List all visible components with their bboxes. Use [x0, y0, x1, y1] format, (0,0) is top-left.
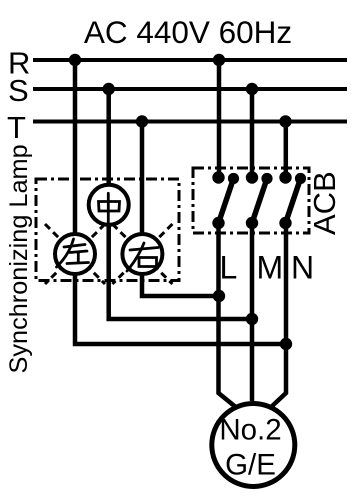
svg-text:L: L [220, 250, 238, 286]
svg-text:G/E: G/E [225, 449, 276, 482]
lamp box dashed enclosure [36, 179, 179, 281]
generator G1 circle [212, 404, 295, 487]
breaker pole 2 blade pivot dot [261, 173, 272, 184]
svg-text:AC 440V 60Hz: AC 440V 60Hz [84, 14, 292, 50]
breaker pole 1 blade [219, 179, 234, 224]
svg-text:T: T [7, 110, 26, 145]
node T-lamp junction [136, 115, 148, 127]
ACB box dashed enclosure [193, 168, 309, 233]
breaker pole 2 top contact [246, 171, 258, 183]
lamp 右 (right) circle [122, 234, 162, 274]
breaker pole 3 blade pivot dot [295, 173, 306, 184]
breaker pole 3 top contact [279, 171, 291, 183]
node T-ACB junction [279, 115, 291, 127]
node R-lamp junction [69, 54, 81, 66]
breaker pole 1 blade pivot dot [228, 173, 239, 184]
breaker pole 1 bottom contact [212, 217, 224, 229]
lamp L3 cross arms [112, 224, 172, 284]
lamp 左 (left) circle [55, 234, 95, 274]
wire ACB feed from S [250, 89, 255, 178]
node R-ACB junction [213, 54, 225, 66]
wire S bus [33, 87, 347, 91]
node lamp-to-N junction [280, 338, 292, 350]
lamp 中 glyph [99, 193, 120, 222]
wire T bus [33, 120, 347, 124]
svg-text:N: N [291, 250, 314, 286]
breaker pole 2 blade [252, 179, 267, 224]
lamp 左 glyph [57, 239, 89, 267]
breaker pole 3 blade [286, 179, 301, 224]
svg-text:S: S [8, 73, 29, 108]
breaker pole 3 bottom contact [279, 217, 291, 229]
breaker pole 2 bottom contact [246, 217, 258, 229]
wire N output [270, 223, 287, 409]
wire L output [219, 223, 238, 409]
wire lamp feed from S [109, 89, 252, 319]
lamp 右 glyph [127, 243, 158, 271]
svg-text:Synchronizing Lamp: Synchronizing Lamp [5, 144, 33, 373]
wire R bus [33, 58, 347, 62]
node lamp-to-L junction [213, 290, 225, 302]
svg-text:No.2: No.2 [219, 414, 281, 447]
lamp 中 (middle) circle [89, 185, 129, 225]
breaker pole 1 top contact [212, 171, 224, 183]
svg-text:ACB: ACB [307, 171, 342, 235]
wire lamp feed from T [142, 122, 219, 297]
wire ACB feed from T [284, 122, 289, 179]
svg-text:M: M [257, 250, 284, 286]
node S-ACB junction [246, 83, 258, 95]
wire ACB feed from R [217, 60, 222, 178]
node S-lamp junction [103, 83, 115, 95]
lamp L1 cross arms [45, 224, 105, 284]
wire M output [250, 223, 255, 401]
node lamp-to-M junction [246, 313, 258, 325]
wire lamp feed from R [75, 60, 286, 344]
